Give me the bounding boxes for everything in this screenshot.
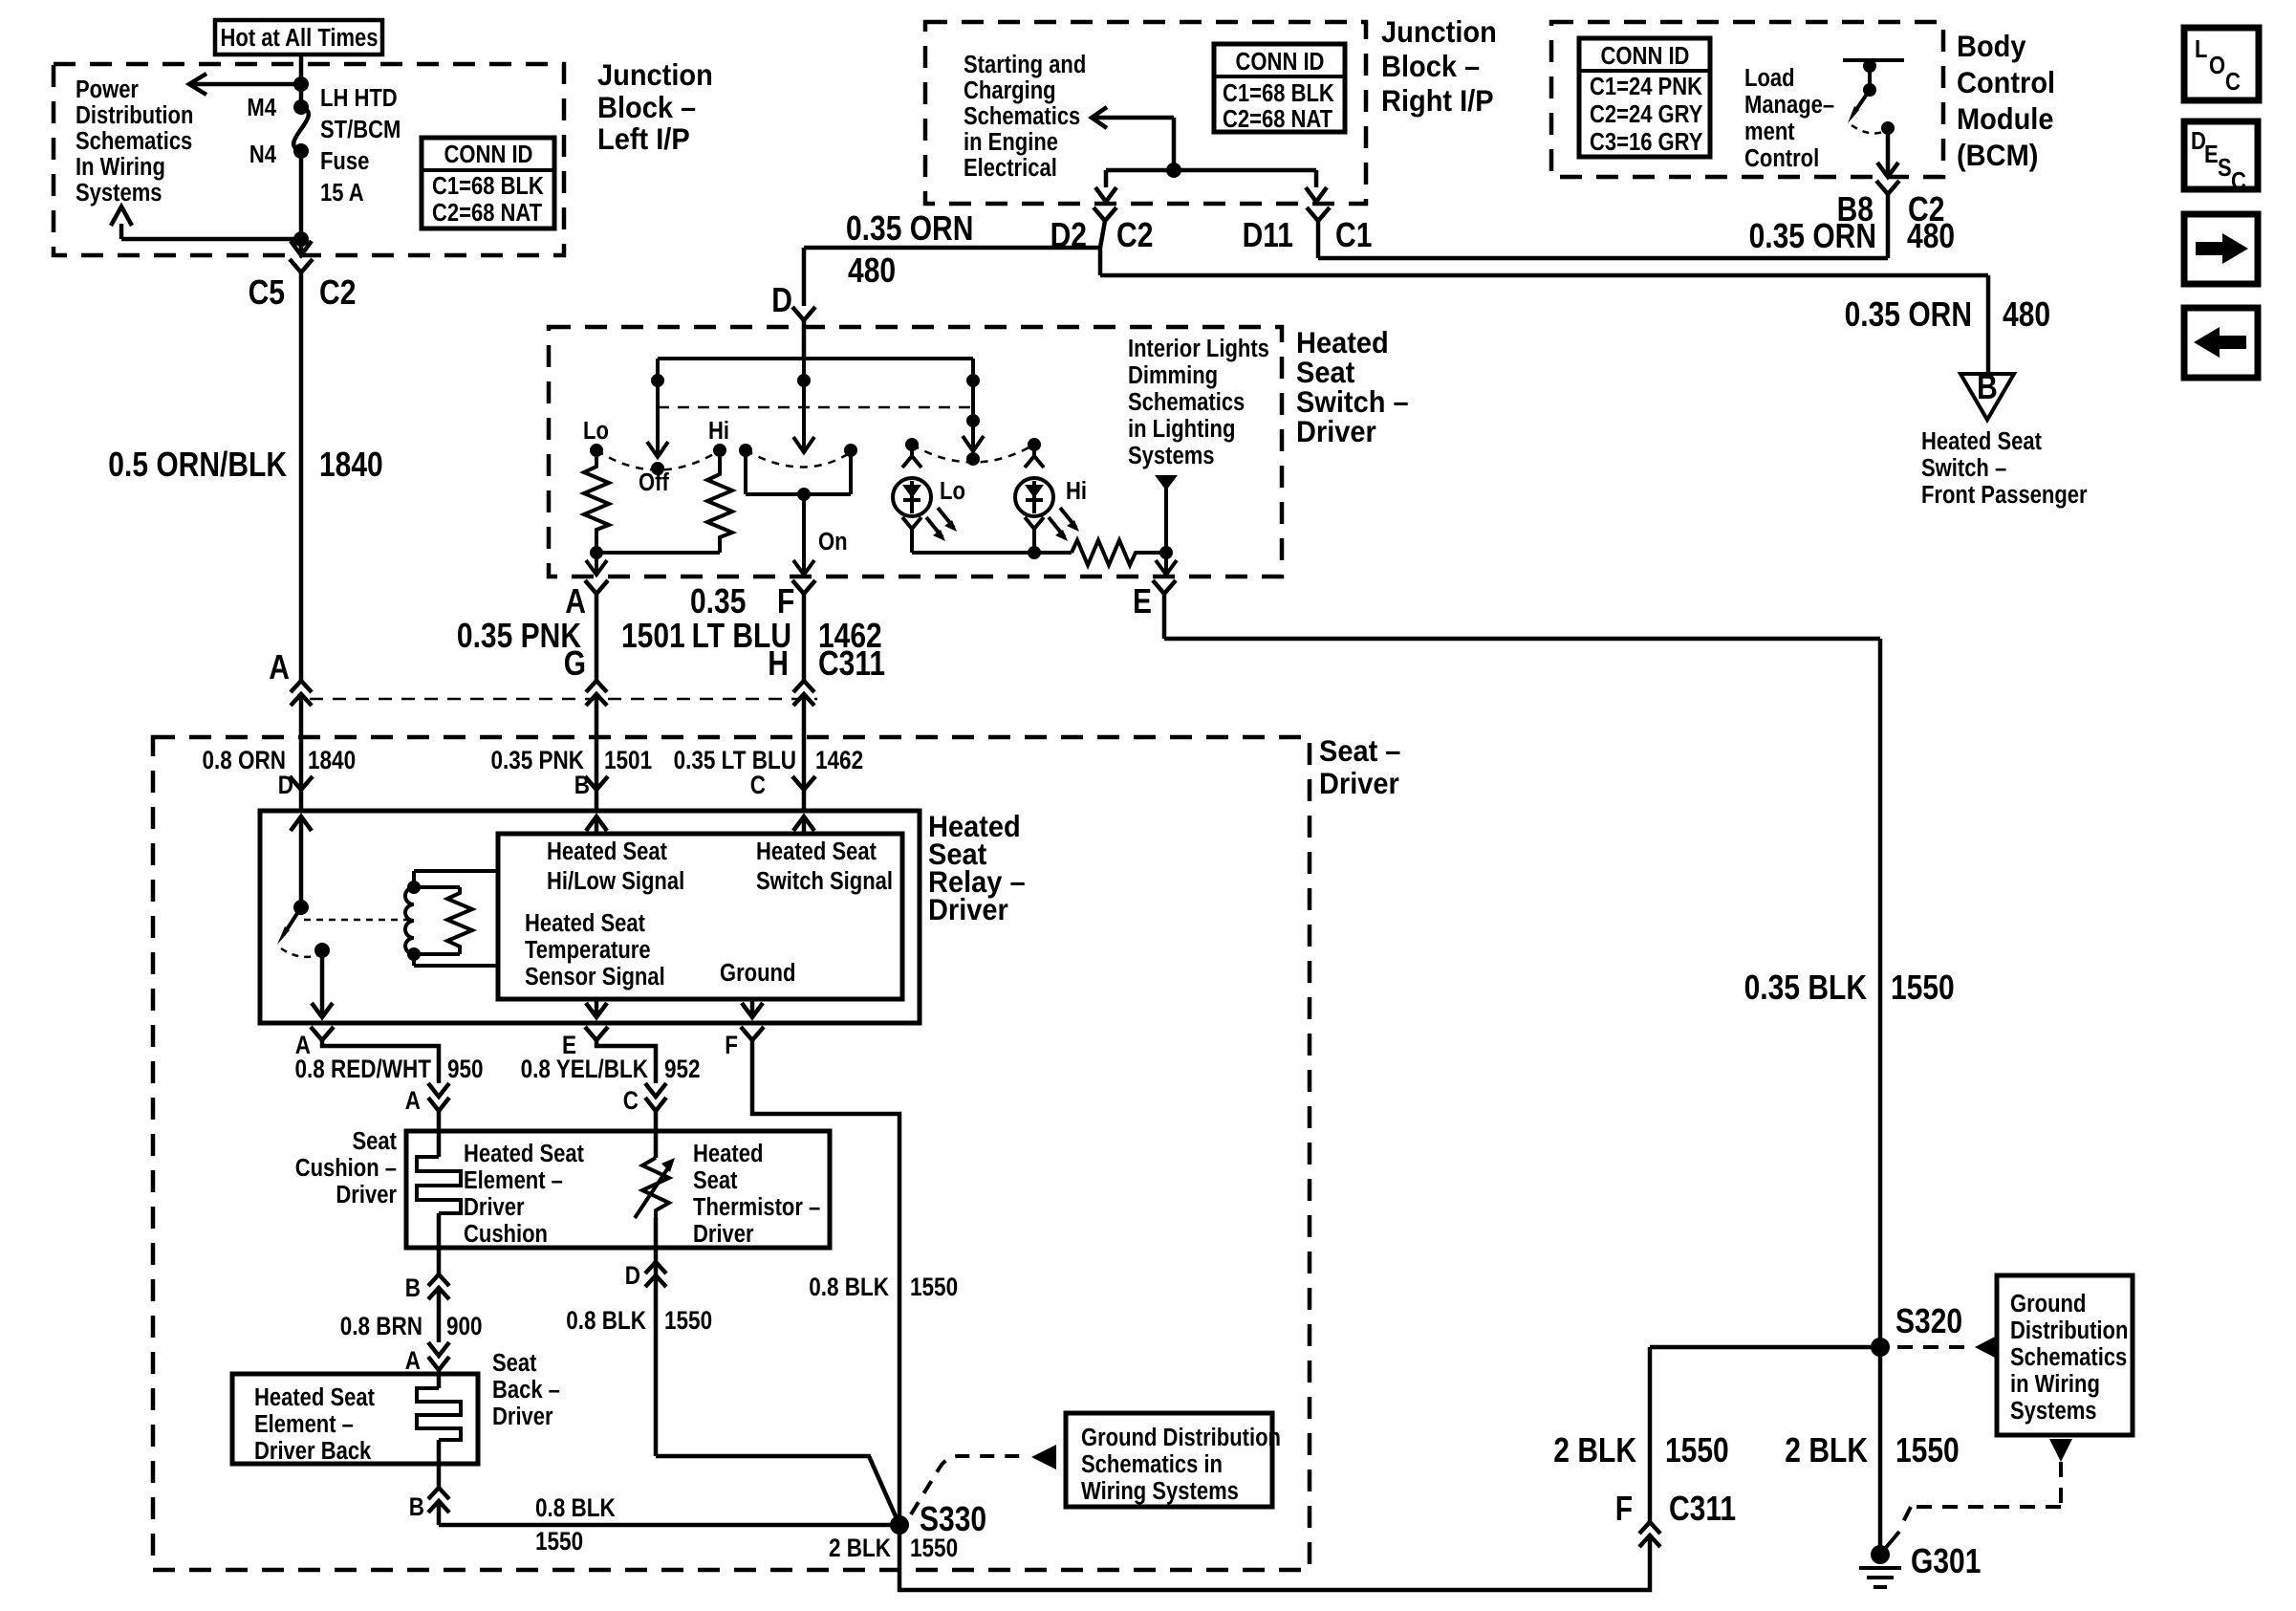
svg-text:Driver: Driver — [693, 1221, 754, 1248]
svg-text:C311: C311 — [818, 643, 885, 683]
svg-text:0.8 BRN: 0.8 BRN — [340, 1312, 422, 1340]
svg-text:Block –: Block – — [1381, 49, 1480, 83]
svg-text:C1=68 BLK: C1=68 BLK — [432, 173, 544, 200]
svg-text:C1: C1 — [1335, 215, 1372, 254]
svg-text:1840: 1840 — [308, 746, 356, 774]
heating element cushion symbol — [437, 1111, 442, 1157]
relay control module box — [498, 834, 902, 999]
svg-text:480: 480 — [2003, 294, 2050, 334]
node off position — [651, 462, 664, 475]
svg-text:0.8 BLK: 0.8 BLK — [535, 1493, 616, 1522]
C311 inline connector dashed line — [310, 698, 817, 701]
svg-text:Hi/Low Signal: Hi/Low Signal — [547, 868, 684, 895]
svg-text:Charging: Charging — [964, 77, 1056, 104]
svg-text:C2=24 GRY: C2=24 GRY — [1590, 101, 1702, 128]
wire thermistor ground 0.8 BLK 1550 — [654, 1262, 659, 1456]
connector A below relay — [311, 1027, 334, 1040]
LED lo lamp — [905, 438, 919, 451]
CONN ID table C1=68 BLK C2=68 NAT right IP — [1214, 44, 1345, 132]
wire S330 to C311 F — [899, 1525, 1650, 1590]
svg-text:B: B — [409, 1492, 424, 1521]
svg-text:ST/BCM: ST/BCM — [320, 117, 401, 143]
svg-text:Left I/P: Left I/P — [597, 121, 690, 156]
svg-text:Module: Module — [1957, 101, 2054, 136]
dashed referral from S320 — [1897, 1345, 1971, 1349]
svg-text:C: C — [623, 1086, 639, 1115]
svg-text:Lo: Lo — [940, 478, 965, 505]
LED illumination pole — [971, 359, 975, 449]
ground distribution schematics box right — [1997, 1275, 2133, 1435]
svg-text:Hi: Hi — [1066, 478, 1087, 505]
wire A jog to cushion element — [322, 1040, 439, 1083]
svg-text:B: B — [1977, 367, 1998, 406]
svg-text:G: G — [564, 643, 586, 683]
resistor dimming — [1072, 540, 1166, 565]
connector B cushion out — [428, 1274, 449, 1286]
svg-text:C1=24 PNK: C1=24 PNK — [1590, 74, 1703, 100]
wire PNK into seat box — [595, 694, 599, 811]
svg-text:L: L — [2195, 36, 2207, 63]
legend LOC box — [2184, 28, 2259, 100]
wire F ground run — [752, 1040, 899, 1525]
heating element back symbol — [417, 1388, 461, 1440]
connector F C311 ground — [1639, 1522, 1660, 1534]
svg-text:C: C — [750, 771, 766, 799]
wire into seat box — [299, 694, 304, 811]
svg-text:Seat –: Seat – — [1319, 733, 1400, 768]
connector E below relay — [585, 1027, 608, 1040]
ground distribution schematics box left — [1066, 1413, 1272, 1507]
svg-text:Front Passenger: Front Passenger — [1921, 482, 2088, 509]
node top branch junction — [293, 76, 309, 92]
svg-text:Temperature: Temperature — [525, 937, 651, 964]
Hot at All Times label box — [215, 20, 382, 54]
dashed coil linkage — [304, 919, 408, 922]
svg-text:(BCM): (BCM) — [1957, 138, 2038, 172]
wire 0.35 ORN 480 to switch D — [804, 246, 1100, 250]
wire 0.35 BLK 1550 long vertical — [1878, 639, 1883, 1555]
switch pole On — [802, 359, 806, 450]
svg-text:2 BLK: 2 BLK — [1785, 1430, 1868, 1469]
svg-text:0.35 PNK: 0.35 PNK — [457, 616, 581, 655]
wire arrow to starting and charging — [1092, 107, 1107, 128]
svg-text:Driver: Driver — [1319, 766, 1399, 800]
svg-text:Junction: Junction — [597, 57, 713, 92]
wire top feed rail — [658, 357, 973, 360]
svg-text:A: A — [269, 647, 290, 686]
connector C5/C2 — [290, 259, 313, 272]
svg-text:Control: Control — [1744, 145, 1819, 172]
connector F below relay — [741, 1027, 764, 1040]
svg-text:ment: ment — [1744, 119, 1795, 145]
wire relay output A — [320, 950, 325, 1017]
svg-text:0.35 ORN: 0.35 ORN — [1845, 294, 1972, 334]
svg-text:E: E — [1133, 581, 1152, 620]
svg-text:Driver: Driver — [336, 1182, 397, 1208]
svg-text:1550: 1550 — [1895, 1430, 1960, 1469]
wire branch to power distribution (left arrow) — [191, 82, 301, 87]
svg-text:Seat: Seat — [492, 1350, 537, 1377]
svg-text:Seat: Seat — [693, 1167, 738, 1194]
svg-text:Driver: Driver — [464, 1194, 525, 1221]
heated seat switch driver dashed box — [549, 327, 1282, 577]
connector A seat back — [428, 1342, 449, 1356]
fuse LH HTD ST/BCM 15A — [293, 99, 309, 115]
connector pin A below switch — [585, 580, 608, 594]
relay coil — [414, 869, 498, 873]
wire pin A exit — [595, 553, 598, 575]
dashed referral to G301 — [2049, 1439, 2072, 1462]
svg-text:0.8 RED/WHT: 0.8 RED/WHT — [295, 1055, 432, 1083]
svg-text:E: E — [2204, 142, 2219, 168]
svg-text:N4: N4 — [249, 142, 277, 168]
svg-text:Thermistor –: Thermistor – — [693, 1194, 820, 1221]
LED hi lamp — [1028, 438, 1041, 451]
svg-text:Seat: Seat — [353, 1128, 398, 1155]
CONN ID table C1=68 BLK C2=68 NAT — [422, 138, 554, 229]
svg-text:952: 952 — [664, 1055, 701, 1083]
svg-text:1550: 1550 — [664, 1306, 712, 1335]
connector pin F below switch — [792, 580, 815, 594]
svg-text:Block –: Block – — [597, 90, 696, 124]
svg-text:G301: G301 — [1911, 1541, 1981, 1580]
svg-text:480: 480 — [848, 250, 896, 290]
wire to front passenger switch — [1100, 273, 1988, 278]
svg-text:CONN ID: CONN ID — [1236, 49, 1325, 76]
svg-text:0.8 YEL/BLK: 0.8 YEL/BLK — [521, 1055, 649, 1083]
svg-text:Hi: Hi — [708, 418, 729, 445]
svg-text:900: 900 — [446, 1312, 483, 1340]
mechanical linkage dashed — [658, 406, 973, 409]
svg-text:1840: 1840 — [319, 445, 383, 484]
resistor low — [584, 457, 609, 553]
svg-text:Driver Back: Driver Back — [254, 1438, 372, 1465]
arrow exiting junction block bottom — [291, 241, 312, 255]
legend DESC box — [2184, 121, 2258, 189]
svg-text:Heated Seat: Heated Seat — [254, 1384, 375, 1411]
wire pin F exit — [802, 494, 806, 575]
wire D2 stem — [1100, 221, 1105, 275]
starting and charging dashed box — [925, 22, 1366, 204]
svg-text:C2: C2 — [319, 272, 356, 312]
contact on left — [739, 444, 752, 457]
svg-text:1550: 1550 — [535, 1527, 583, 1556]
wire branch to power distribution (up arrow) — [121, 237, 301, 242]
svg-text:B: B — [574, 771, 590, 799]
wire 0.8 BLK 1550 to S330 — [437, 1501, 442, 1525]
svg-text:O: O — [2209, 53, 2225, 79]
switch pole Lo/Off/Hi — [656, 359, 660, 455]
wire 0.35 PNK 1501 — [595, 594, 599, 681]
svg-text:Driver: Driver — [492, 1404, 553, 1430]
wire dimming feed — [1155, 475, 1178, 490]
wire E sensor output — [595, 999, 599, 1017]
svg-text:C311: C311 — [1669, 1489, 1736, 1528]
svg-text:Systems: Systems — [2010, 1398, 2097, 1425]
svg-text:Heated Seat: Heated Seat — [464, 1141, 584, 1167]
svg-text:C2: C2 — [1116, 215, 1153, 254]
wire 0.35 LT BLU 1462 — [802, 594, 807, 681]
wire D feed with up arrow — [299, 816, 304, 907]
svg-text:Wiring Systems: Wiring Systems — [1081, 1478, 1239, 1505]
svg-text:2 BLK: 2 BLK — [829, 1534, 891, 1562]
svg-text:Cushion: Cushion — [464, 1221, 548, 1248]
load management switch — [1843, 58, 1904, 62]
svg-text:A: A — [405, 1346, 421, 1375]
svg-text:In Wiring: In Wiring — [76, 154, 165, 181]
svg-text:C1=68 BLK: C1=68 BLK — [1223, 80, 1334, 107]
relay fixed contact — [314, 943, 330, 958]
svg-text:Schematics in: Schematics in — [1081, 1451, 1223, 1478]
svg-text:Junction: Junction — [1381, 14, 1497, 49]
heated seat element driver back box — [232, 1374, 478, 1464]
connector A cushion — [428, 1083, 449, 1097]
svg-text:Heated Seat: Heated Seat — [756, 838, 877, 865]
dashed led arc — [912, 445, 1034, 463]
svg-text:F: F — [725, 1031, 738, 1059]
splice S320 — [1871, 1338, 1890, 1357]
contact Hi — [713, 444, 726, 457]
svg-text:Electrical: Electrical — [964, 155, 1057, 182]
svg-text:S330: S330 — [920, 1499, 986, 1538]
connector D11/C1 — [1307, 207, 1330, 221]
wire 0.8 BRN 900 — [437, 1288, 442, 1342]
wire 2 BLK 1550 left — [1648, 1347, 1653, 1522]
svg-text:1462: 1462 — [815, 746, 863, 774]
svg-text:Ground: Ground — [720, 960, 795, 987]
wire C feed with up arrow — [802, 816, 807, 834]
svg-text:0.35 LT BLU: 0.35 LT BLU — [674, 746, 796, 774]
svg-text:Switch Signal: Switch Signal — [756, 868, 893, 895]
svg-text:Starting and: Starting and — [964, 52, 1086, 78]
svg-text:Off: Off — [639, 469, 669, 496]
connector B back out — [428, 1488, 449, 1499]
svg-text:1550: 1550 — [1665, 1430, 1729, 1469]
svg-text:Manage–: Manage– — [1744, 92, 1834, 119]
svg-text:C5: C5 — [249, 272, 285, 312]
svg-text:Element –: Element – — [254, 1411, 354, 1438]
splice S330 — [890, 1515, 909, 1535]
svg-text:Hot at All Times: Hot at All Times — [221, 25, 379, 52]
ground G301 — [1871, 1545, 1890, 1564]
wire 0.35 ORN 480 from BCM — [1886, 194, 1891, 258]
wire resistor bottom rail — [596, 551, 720, 555]
wire D drop to switch — [802, 248, 807, 306]
svg-text:1550: 1550 — [910, 1534, 958, 1562]
wire D11 to BCM B8 — [1318, 256, 1888, 261]
svg-text:Back –: Back – — [492, 1377, 560, 1404]
svg-text:0.8 BLK: 0.8 BLK — [566, 1306, 646, 1335]
seat driver dashed box — [153, 737, 1310, 1570]
svg-text:Dimming: Dimming — [1128, 362, 1218, 389]
svg-text:Right I/P: Right I/P — [1381, 83, 1494, 118]
svg-text:in Wiring: in Wiring — [2010, 1371, 2100, 1398]
legend left arrow box — [2184, 308, 2258, 378]
svg-text:Schematics: Schematics — [1128, 389, 1245, 416]
svg-text:C2=68 NAT: C2=68 NAT — [1223, 106, 1332, 133]
connector B8/C2 — [1876, 181, 1899, 194]
dashed referral from S330 — [911, 1456, 1025, 1514]
svg-text:Systems: Systems — [1128, 443, 1215, 469]
wire D11 stem — [1316, 221, 1321, 258]
svg-text:A: A — [405, 1086, 421, 1115]
svg-text:Driver: Driver — [1296, 414, 1376, 448]
off-page connector B triangle — [1960, 374, 2014, 420]
thermistor symbol — [654, 1111, 659, 1158]
svg-text:Fuse: Fuse — [320, 148, 369, 175]
svg-text:D: D — [625, 1261, 640, 1290]
svg-text:in Engine: in Engine — [964, 129, 1058, 156]
svg-text:Element –: Element – — [464, 1167, 563, 1194]
wire 0.5 ORN/BLK 1840 — [299, 272, 304, 681]
svg-text:CONN ID: CONN ID — [1601, 43, 1690, 70]
svg-text:On: On — [818, 529, 848, 555]
svg-text:Schematics: Schematics — [76, 128, 192, 155]
junction block left I/P dashed box — [54, 64, 564, 255]
svg-text:Cushion –: Cushion – — [295, 1155, 397, 1182]
wire from fuse down — [299, 151, 304, 255]
svg-text:0.35 ORN: 0.35 ORN — [1749, 216, 1876, 255]
svg-text:Systems: Systems — [76, 180, 162, 207]
contact Lo — [590, 444, 603, 457]
svg-text:C2=68 NAT: C2=68 NAT — [432, 200, 542, 227]
svg-text:0.5 ORN/BLK: 0.5 ORN/BLK — [108, 445, 287, 484]
wire E to ground net — [1162, 594, 1167, 639]
svg-text:1501: 1501 — [604, 746, 652, 774]
svg-text:CONN ID: CONN ID — [444, 142, 533, 168]
svg-text:Schematics: Schematics — [2010, 1344, 2127, 1371]
svg-text:Load: Load — [1744, 65, 1795, 92]
wire F ground output — [750, 999, 755, 1017]
svg-text:1501: 1501 — [621, 616, 685, 655]
svg-text:H: H — [768, 643, 789, 683]
heated seat relay driver box — [260, 811, 920, 1023]
connector C thermistor — [645, 1083, 666, 1097]
svg-text:0.35 PNK: 0.35 PNK — [491, 746, 585, 774]
svg-text:Heated Seat: Heated Seat — [525, 910, 645, 937]
svg-text:950: 950 — [447, 1055, 484, 1083]
svg-text:D11: D11 — [1243, 215, 1293, 254]
connector D2/C2 — [1094, 207, 1116, 221]
wire split rail — [1106, 168, 1316, 173]
svg-text:M4: M4 — [247, 95, 276, 121]
svg-text:Heated: Heated — [693, 1141, 763, 1167]
svg-text:480: 480 — [1907, 216, 1955, 255]
node lower branch junction — [293, 231, 309, 247]
svg-text:1550: 1550 — [1891, 968, 1955, 1007]
svg-text:Interior Lights: Interior Lights — [1128, 336, 1269, 362]
svg-text:C: C — [2225, 69, 2241, 96]
svg-text:S320: S320 — [1895, 1301, 1962, 1340]
svg-text:Ground: Ground — [2010, 1291, 2086, 1317]
svg-text:Heated Seat: Heated Seat — [1921, 428, 2042, 455]
svg-text:C3=16 GRY: C3=16 GRY — [1590, 129, 1702, 156]
svg-text:Heated Seat: Heated Seat — [547, 838, 667, 865]
svg-text:B: B — [405, 1274, 421, 1302]
dashed relay arc — [281, 948, 320, 957]
svg-text:0.8 ORN: 0.8 ORN — [203, 746, 287, 774]
wire B8 output — [1886, 128, 1891, 177]
connector pin E below switch — [1153, 580, 1176, 594]
resistor high — [707, 457, 732, 553]
wire B feed with up arrow — [595, 816, 599, 834]
svg-text:Schematics: Schematics — [964, 103, 1080, 130]
wire on rail — [746, 492, 851, 496]
svg-text:Driver: Driver — [928, 892, 1008, 926]
wire led return rail — [912, 551, 1072, 555]
svg-text:Ground Distribution: Ground Distribution — [1081, 1425, 1281, 1451]
svg-text:LH HTD: LH HTD — [320, 85, 398, 112]
heated seat element driver cushion box — [406, 1131, 830, 1248]
svg-text:Distribution: Distribution — [2010, 1317, 2128, 1344]
svg-text:Power: Power — [76, 76, 139, 103]
wire E jog to thermistor — [596, 1040, 656, 1083]
svg-text:F: F — [777, 581, 794, 620]
svg-text:Lo: Lo — [583, 418, 609, 445]
svg-text:1550: 1550 — [910, 1273, 958, 1301]
svg-text:0.35: 0.35 — [690, 581, 746, 620]
svg-text:F: F — [1615, 1489, 1633, 1528]
svg-text:Switch –: Switch – — [1921, 455, 2006, 482]
svg-text:D: D — [771, 280, 792, 319]
svg-text:Control: Control — [1957, 65, 2055, 99]
svg-text:Distribution: Distribution — [76, 102, 193, 129]
svg-text:2 BLK: 2 BLK — [1553, 1430, 1636, 1469]
relay coil resistor branch — [414, 885, 460, 889]
svg-text:D: D — [278, 771, 293, 799]
svg-text:S: S — [2218, 155, 2232, 182]
wire from hot feed down — [299, 54, 304, 107]
svg-text:0.35 BLK: 0.35 BLK — [1744, 968, 1867, 1007]
svg-text:Sensor Signal: Sensor Signal — [525, 964, 665, 991]
svg-text:0.8 BLK: 0.8 BLK — [809, 1273, 889, 1301]
wire LT BLU into seat box — [802, 694, 807, 811]
CONN ID table C1=24 PNK C2=24 GRY C3=16 GRY — [1579, 38, 1710, 157]
body control module dashed box — [1551, 22, 1943, 177]
svg-text:0.35 ORN: 0.35 ORN — [846, 208, 973, 248]
relay switch pole — [293, 900, 309, 915]
node feed split — [1166, 163, 1181, 178]
contact on right — [844, 444, 857, 457]
dashed selector arc — [596, 450, 720, 470]
legend right arrow box — [2184, 214, 2258, 284]
svg-text:15 A: 15 A — [320, 180, 364, 207]
svg-text:A: A — [565, 581, 586, 620]
svg-text:in Lighting: in Lighting — [1128, 416, 1235, 443]
svg-text:Body: Body — [1957, 29, 2026, 63]
svg-text:C: C — [2231, 168, 2246, 195]
dashed on arc — [746, 450, 851, 468]
